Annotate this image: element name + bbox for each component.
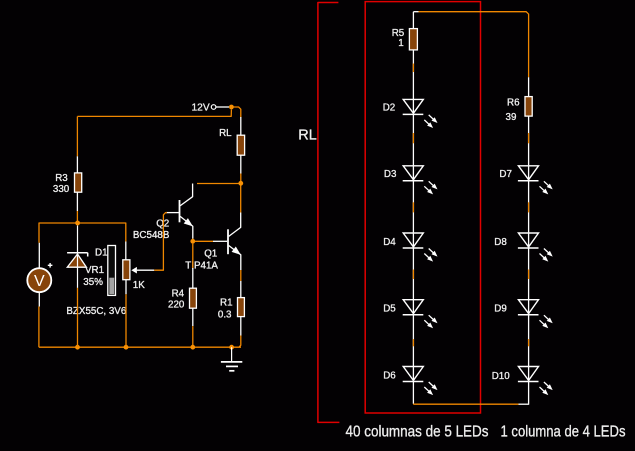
svg-text:D2: D2 [383, 103, 396, 114]
svg-text:D7: D7 [499, 169, 512, 180]
transistor Q2 [166, 184, 193, 239]
wire columns bottom link [413, 403, 518, 405]
wire RL top lead [240, 117, 242, 135]
LED D6 [403, 367, 438, 396]
wire column1 spine [412, 12, 414, 404]
svg-text:Q1: Q1 [204, 249, 217, 260]
wire R4 to ground rail [192, 326, 194, 347]
wire V source to mid rail [39, 223, 126, 243]
svg-text:D10: D10 [492, 371, 511, 382]
wire R1 bottom lead [240, 317, 242, 336]
12V supply terminal [211, 105, 216, 110]
wire dash col2 D5-D6 [528, 339, 530, 346]
wire VR1 bottom lead [125, 280, 127, 295]
node rail-R4 [190, 345, 195, 350]
svg-text:BC548B: BC548B [133, 230, 170, 241]
svg-text:R6: R6 [507, 98, 520, 109]
svg-text:1 columna de 4 LEDs: 1 columna de 4 LEDs [501, 423, 626, 440]
wire RL bottom lead [240, 155, 242, 173]
svg-text:D4: D4 [383, 237, 396, 248]
LED D2 [403, 99, 438, 128]
resistor RL [237, 135, 244, 155]
wire R3 to mid rail [76, 211, 78, 223]
potentiometer slider indicator [108, 246, 116, 296]
resistor R5 [409, 29, 417, 50]
red box around LED column [365, 2, 480, 413]
wire zener to ground rail [77, 288, 79, 347]
node Q2 emitter / Q1 base [190, 239, 195, 244]
wire VR1 to ground rail [125, 294, 127, 347]
svg-text:R1: R1 [220, 298, 233, 309]
RL bracket annotation [318, 3, 340, 423]
potentiometer VR1 1K [123, 260, 155, 280]
svg-text:35%: 35% [83, 277, 103, 288]
wire Q1 base lead [213, 240, 227, 242]
wire V source top lead [38, 243, 40, 269]
svg-text:220: 220 [168, 299, 185, 310]
wire dash R5-D2 [412, 64, 414, 73]
svg-text:1K: 1K [133, 280, 145, 291]
svg-text:R4: R4 [172, 289, 185, 300]
svg-text:D9: D9 [494, 304, 507, 315]
LED D5 [403, 300, 438, 329]
wire R1 top lead [240, 281, 242, 298]
svg-text:1: 1 [398, 38, 403, 49]
svg-text:BZX55C, 3V6: BZX55C, 3V6 [66, 306, 126, 317]
ground [221, 347, 242, 371]
svg-text:V: V [34, 273, 45, 290]
svg-text:RL: RL [219, 128, 232, 139]
wire dash col2 D3-D4 [528, 202, 530, 212]
wire RL to collector node [240, 174, 242, 184]
wire wiper to Q2 base [154, 213, 167, 271]
svg-text:RL: RL [298, 127, 317, 143]
node rail-ground [229, 345, 234, 350]
zener diode D1 [67, 253, 88, 288]
svg-text:D6: D6 [383, 370, 396, 381]
svg-text:330: 330 [53, 184, 70, 195]
svg-text:12V: 12V [192, 102, 210, 113]
wire Q1 collector to node [240, 186, 242, 213]
wire bottom rail [39, 346, 241, 348]
svg-text:D5: D5 [383, 304, 396, 315]
wire dash D4-D5 [412, 270, 414, 280]
resistor R1 [238, 298, 245, 317]
node RL / Q1 collector [238, 181, 243, 186]
wire column2 spine [528, 77, 530, 404]
svg-text:VR1: VR1 [85, 265, 104, 276]
wire R4 bottom lead [192, 308, 194, 326]
wire V source branch [38, 307, 40, 348]
wire dash D2-D3 [412, 133, 414, 143]
wire top rail from R3 to 12V node [77, 110, 231, 117]
LED D9 [518, 300, 553, 329]
LED D8 [518, 233, 553, 262]
svg-text:D8: D8 [494, 237, 507, 248]
wire Q1 emitter to R1 [240, 270, 242, 281]
node at 12V [229, 105, 234, 110]
wire V source bottom lead [38, 292, 40, 306]
svg-text:R3: R3 [55, 173, 68, 184]
wire Q2 emitter to node [192, 239, 194, 241]
svg-text:D3: D3 [384, 169, 397, 180]
svg-text:39: 39 [506, 112, 517, 123]
svg-text:Q2: Q2 [156, 219, 169, 230]
wire dash D3-D4 [412, 202, 414, 212]
LED D7 [518, 166, 553, 195]
wire R4 top lead [192, 268, 194, 288]
wire dash col2 D2-D3 [528, 133, 530, 143]
LED D10 [518, 367, 553, 396]
wire bottom link white part [519, 403, 530, 405]
wire R1 to ground rail [239, 336, 241, 348]
node mid rail / D1 / R3 [75, 221, 80, 226]
wire LED columns top link [413, 12, 528, 78]
wire 12V node to RL top [231, 107, 240, 117]
svg-text:40 columnas de 5 LEDs: 40 columnas de 5 LEDs [346, 423, 489, 440]
wire node to Q1 base [195, 240, 213, 242]
node rail-D1 [75, 345, 80, 350]
LED D4 [403, 233, 438, 262]
wire VR1 top lead [125, 242, 127, 260]
LED D3 [403, 166, 438, 195]
wire R3 bottom lead [76, 192, 78, 211]
svg-text:TIP41A: TIP41A [185, 260, 218, 271]
wire dash col2 D4-D5 [528, 270, 530, 280]
wire dash D5-D6 [412, 339, 414, 346]
resistor R6 [525, 97, 532, 117]
wire R3 to top rail [76, 116, 78, 156]
svg-text:D1: D1 [95, 247, 108, 258]
plus sign [48, 263, 53, 268]
wire collector node to Q2 collector [197, 183, 241, 185]
wire R4 branch from node [192, 244, 194, 268]
wire zener branch [77, 226, 79, 253]
wire R3 top lead [76, 156, 78, 173]
transistor Q1 [228, 213, 241, 271]
node rail-VR1 [124, 345, 129, 350]
voltage source V1 [27, 268, 51, 292]
wire terminal to node [216, 106, 229, 108]
resistor R3 [75, 173, 82, 192]
resistor R4 [190, 288, 197, 308]
svg-text:0.3: 0.3 [218, 310, 232, 321]
